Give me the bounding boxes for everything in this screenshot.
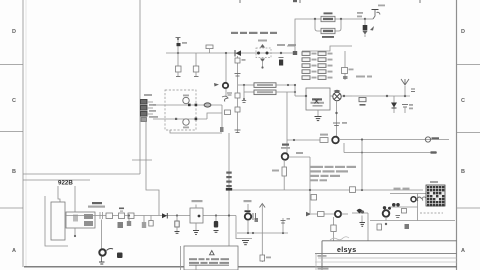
node label R803 — [322, 36, 334, 38]
wire: output rail y152.5 — [344, 151, 437, 153]
capacitor C903 electrolytic — [119, 208, 125, 219]
diode D830 pair — [352, 209, 368, 214]
resistor R805 — [235, 93, 240, 98]
resistor R905 below rail — [149, 216, 153, 227]
fuse F801 — [321, 16, 335, 21]
wire: degauss pin 2 drop — [74, 186, 76, 212]
diode D810 bridge rectifier — [333, 90, 341, 101]
resistor R823 vertical — [272, 160, 287, 190]
node note text line1 — [310, 166, 356, 168]
node filter terminal dots — [175, 104, 197, 121]
node title block frame — [322, 241, 457, 270]
node zone tick top x300 — [299, 0, 301, 3]
wire: Q804 emitter down — [247, 220, 249, 233]
svg-text:D: D — [12, 29, 16, 35]
wire: fuse bypass loop — [315, 19, 341, 31]
transistor Q902 SCR — [223, 83, 228, 88]
wire: rail to fuse — [295, 19, 365, 53]
resistor R822 — [311, 195, 317, 201]
component D905 arrow — [214, 83, 219, 87]
wire: bridge down — [336, 101, 338, 137]
diode D823 arrow — [306, 212, 311, 217]
wire: IC out to bridge — [330, 95, 333, 97]
resistor R827 bottom — [260, 255, 271, 261]
node junction x365 — [364, 18, 366, 20]
capacitor C803 electrolytic dark — [279, 58, 284, 66]
wire: sense y193.5 — [390, 193, 426, 195]
node junction x288 — [287, 84, 289, 86]
wire: y96 to right — [352, 95, 410, 97]
wire: bus y220.5 — [370, 220, 455, 222]
wire: y140 link — [287, 139, 320, 141]
wire: x368 drop — [367, 213, 369, 241]
node junction x229 rail cross — [228, 214, 230, 216]
node caution text line1 — [189, 258, 229, 260]
wire: y214 link — [311, 213, 334, 215]
wire: x362 drop to rail — [361, 140, 363, 191]
wire: filter neutral branch — [153, 118, 207, 120]
component C830 below bus — [405, 224, 410, 229]
node note text line2 — [310, 170, 348, 172]
node connector CN802 pin 1 — [226, 172, 231, 174]
node junction x362 y190 — [361, 189, 363, 191]
node terminal circle — [425, 137, 439, 142]
wire: chopper base drop — [101, 220, 103, 250]
wire: x310 vertical — [309, 157, 311, 214]
resistor R807 — [254, 90, 276, 95]
wire: rail x229 — [228, 133, 230, 246]
capacitor C820 below rail — [214, 214, 219, 232]
capacitor C805 — [242, 92, 246, 103]
transistor Q802 — [332, 137, 339, 144]
wire: ground bus y233 — [237, 232, 288, 234]
capacitor C802 above rail — [206, 45, 213, 53]
node junction rail corner — [293, 51, 297, 55]
svg-text:C: C — [12, 98, 16, 104]
wire: x417 vertical — [417, 194, 419, 221]
wire: grid right bus — [344, 51, 346, 80]
node AC plug terminal — [365, 5, 385, 20]
svg-text:922B: 922B — [58, 180, 73, 187]
transistor Q901 chopper — [99, 249, 105, 255]
inductor L902 — [204, 103, 211, 107]
wire: feedback vertical x287 — [286, 92, 288, 153]
node zone tick left y131 — [0, 131, 23, 133]
wire: filter line branch — [153, 104, 222, 106]
wire: Q806 emitter — [385, 217, 387, 221]
node connector CN802 pin 4 — [226, 185, 231, 187]
component cap marks x229 — [227, 93, 232, 95]
component hybrid IC HIC801 dense block — [426, 185, 445, 206]
node caution outer line — [180, 246, 182, 270]
inductor LF901 winding A — [183, 95, 189, 104]
wire: sense line x262 — [260, 204, 266, 263]
svg-text:A: A — [461, 248, 465, 254]
node top border mark — [293, 0, 297, 2]
capacitor C807 bottom — [235, 130, 241, 133]
resistor R804 — [235, 58, 246, 63]
resistor R906 — [225, 110, 231, 115]
transformer T801 — [190, 200, 203, 223]
node U801 internal marks — [311, 98, 325, 106]
node junction x344 — [343, 95, 345, 97]
node title logo elsys — [330, 237, 357, 254]
component marks = — [411, 89, 415, 92]
diode D820 inline — [162, 213, 167, 219]
svg-text:A: A — [12, 248, 16, 254]
node chassis arrow up — [401, 79, 409, 96]
wire: jog line-neutral — [207, 105, 222, 119]
node junction x178 — [177, 52, 179, 54]
node connector CN802 pin 3 — [226, 181, 231, 183]
wire: rail into IC — [294, 85, 296, 96]
diode D801 inline — [235, 50, 241, 57]
wire: posistor bottom pin — [74, 228, 76, 235]
wire: rejoin loop — [276, 85, 296, 93]
wire: long control rail y190 — [232, 189, 423, 191]
resistor R825 below — [175, 216, 180, 234]
capacitor C831 — [396, 216, 401, 218]
component FS801 spark gap — [256, 40, 271, 58]
op-amp U801 control IC box — [306, 88, 330, 110]
wire: branch drop to y92 — [244, 85, 254, 92]
inductor LF901 winding B — [183, 119, 189, 129]
component LF901 line filter shield box — [165, 90, 196, 130]
wire: sheet left border — [23, 0, 26, 267]
wire: rail corner to ground run — [236, 216, 252, 239]
node junction dots y233 — [247, 232, 284, 234]
component arrow glyph — [370, 26, 374, 31]
node junction x362 y139 — [361, 138, 363, 140]
node connector CN901 mains pins — [141, 100, 148, 122]
wire: x222 down — [221, 113, 223, 127]
resistor R904 below rail — [127, 216, 131, 227]
node CN901 pin labels — [149, 104, 158, 118]
node junction x294 y140 — [293, 139, 295, 141]
wire: CRT block bottom edge — [23, 173, 140, 175]
node label F801 — [324, 12, 333, 14]
wire: degauss return loop — [45, 196, 68, 246]
node junction x226 — [225, 52, 227, 54]
component posistor internals — [73, 214, 93, 226]
component Q901 emitter arc — [107, 249, 114, 251]
resistor R802 down branch — [193, 53, 199, 77]
transistor Q805 — [335, 211, 341, 217]
wire: primary bottom rail — [65, 215, 236, 217]
wire: Q805 base drop — [333, 217, 335, 225]
resistor R820 — [320, 134, 328, 143]
wire: sheet bottom border — [24, 266, 457, 268]
node zone tick left y208 — [0, 207, 23, 209]
node CN901 label — [144, 94, 152, 96]
node zone tick right y131 — [457, 132, 480, 134]
node junction x244 — [243, 84, 245, 86]
svg-text:C: C — [461, 98, 465, 104]
svg-text:elsys: elsys — [337, 247, 357, 254]
resistor R835 — [359, 98, 366, 106]
node junction x281 — [280, 52, 282, 54]
node title divider 1 — [315, 254, 457, 270]
node note text line3 — [310, 175, 340, 182]
component squiggle — [222, 96, 228, 101]
wire: bridge out right — [341, 95, 352, 97]
wire: net to degauss connector — [23, 179, 90, 181]
resistor R833 — [402, 209, 407, 214]
component D903 dark — [117, 253, 123, 259]
node label R901 text — [88, 202, 105, 208]
resistor R803 bypass — [321, 28, 335, 33]
inductor L901 degauss coil box — [51, 202, 65, 240]
wire: branch y85 — [238, 84, 254, 86]
node junction IC input — [305, 95, 307, 97]
component spark gap lower electrode — [260, 59, 265, 69]
ground T801 — [193, 223, 199, 235]
wire: filter exit bottom — [170, 130, 222, 133]
wire: stub y160 — [132, 159, 152, 161]
resistor R812 grid col1 — [302, 64, 317, 68]
node zone tick top x240 — [239, 0, 241, 3]
transistor Q804 — [244, 200, 252, 220]
wire: grid top bus — [302, 46, 352, 51]
wire: Q803 emitter right — [289, 156, 311, 158]
component D902 below rail — [118, 222, 124, 228]
resistor R814 grid col1 — [302, 76, 317, 80]
resistor R821 grid col2 — [318, 58, 333, 62]
resistor R829 — [331, 225, 336, 241]
resistor R822 grid col2 — [318, 64, 333, 68]
node caution note box — [184, 246, 238, 270]
node labels right of fuse — [357, 12, 363, 17]
transistor Q807 — [411, 197, 416, 202]
component marks x345 — [343, 76, 348, 79]
resistor R823 grid col2 — [318, 70, 333, 74]
node zone tick left y66 — [0, 64, 23, 66]
ground D830 — [360, 216, 366, 227]
wire: Q802 emitter drop — [343, 143, 345, 153]
capacitor C801 up branch — [176, 37, 188, 53]
node junction x405 — [404, 95, 406, 97]
diode D812 down — [391, 96, 397, 113]
wire: mains neutral down — [146, 122, 159, 216]
node label above Q803 — [281, 144, 290, 149]
resistor R806 — [254, 83, 276, 88]
wire: AC rail top — [166, 52, 295, 54]
node label subcircuit — [356, 76, 372, 78]
resistor R801 down branch — [176, 53, 182, 77]
resistor R830 — [342, 68, 354, 74]
wire: y96 feed — [295, 95, 306, 97]
resistor R810 grid col1 — [302, 52, 317, 56]
component R805b — [235, 107, 240, 112]
node posistor pin dot — [74, 235, 76, 237]
resistor R813 grid col1 — [302, 70, 317, 74]
resistor R824 on rail — [350, 187, 356, 193]
node junction fuse left — [314, 18, 316, 20]
wire: dashed link y213 — [420, 212, 443, 214]
node label R821 — [296, 152, 303, 154]
node junction x310 y190 — [309, 189, 311, 191]
node junction x336 y113 — [335, 112, 337, 114]
resistor R811 grid col1 — [302, 58, 317, 62]
node label HIC801 — [430, 181, 438, 183]
ground main — [242, 241, 249, 245]
ground chopper emitter — [99, 256, 105, 264]
capacitor C821 — [253, 213, 258, 222]
node label C803 — [277, 44, 296, 46]
node title label model — [318, 255, 327, 257]
wire: output rail y139.5 — [339, 139, 449, 141]
capacitor C812 — [402, 104, 413, 113]
wire: snubber chain vertical — [237, 56, 239, 133]
wire: SCR drop from top rail — [225, 53, 227, 82]
wire: SCR to squiggle — [225, 89, 227, 97]
node junction x295 y85 — [294, 84, 296, 86]
node connector CN802 pin 5 dark — [226, 188, 232, 191]
component TH901 posistor block — [66, 212, 95, 228]
component C906 blob — [220, 127, 224, 132]
wire: Q805 out stub — [341, 213, 348, 215]
node zone tick top x420 — [419, 0, 421, 3]
resistor R903 — [128, 213, 134, 219]
resistor R820 grid col2 — [318, 52, 333, 56]
resistor R824 grid col2 — [318, 76, 333, 80]
wire: CRT block right edge — [139, 0, 141, 174]
wire: degauss pin 1 drop — [58, 186, 60, 202]
capacitor C822 x283 — [281, 218, 291, 233]
wire: y207 link — [390, 206, 418, 208]
node label stub y46 — [287, 45, 295, 47]
node connector CN802 pin 2 — [226, 176, 231, 178]
transistor Q806 — [383, 206, 391, 217]
node zone tick right y208 — [457, 207, 480, 209]
node title divider 2 — [315, 258, 457, 262]
capacitor C804 — [235, 74, 241, 77]
resistor R902 — [106, 213, 113, 219]
capacitor C902 plates — [100, 212, 103, 219]
wire: CN901 stubs — [147, 102, 153, 114]
node junction x387 — [386, 95, 388, 97]
svg-text:B: B — [461, 169, 465, 175]
ground U801 — [315, 110, 322, 121]
node junction dot x129 — [128, 214, 130, 216]
capacitor C809 — [333, 122, 347, 126]
wire: sheet right border — [456, 0, 458, 270]
node zone tick right y66 — [457, 64, 480, 66]
node junction x177 — [176, 214, 178, 216]
resistor R832 below bus — [377, 223, 387, 230]
resistor R828 — [318, 212, 325, 217]
node labels y188 — [394, 188, 410, 190]
node title label bottom — [318, 268, 329, 270]
node caution symbol — [210, 251, 215, 255]
node junction fuse right — [340, 18, 342, 20]
diode D802 from junction — [363, 19, 368, 37]
node connector CN803 glyphs — [417, 197, 434, 202]
diode D831 pair dots — [392, 203, 400, 207]
node caution text line2 — [189, 262, 229, 266]
transistor Q803 — [282, 153, 289, 160]
component C904 below rail — [142, 216, 146, 229]
node labels row top — [231, 32, 277, 34]
svg-text:B: B — [12, 169, 16, 175]
svg-text:D: D — [461, 29, 465, 35]
wire: note box stub — [195, 266, 197, 270]
